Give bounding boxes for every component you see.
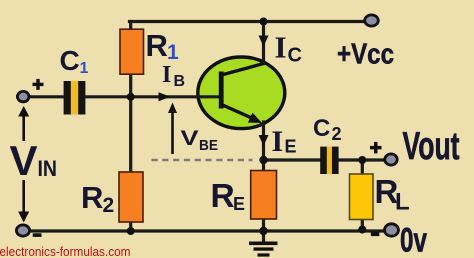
svg-text:R: R	[211, 178, 235, 215]
svg-text:1: 1	[80, 60, 89, 77]
svg-text:0v: 0v	[400, 222, 427, 258]
svg-text:IN: IN	[38, 156, 58, 181]
svg-text:BE: BE	[199, 138, 218, 154]
svg-text:C: C	[288, 45, 302, 67]
svg-text:I: I	[162, 62, 171, 88]
svg-text:C: C	[313, 115, 330, 142]
svg-text:Vout: Vout	[403, 125, 460, 168]
svg-text:C: C	[60, 45, 80, 76]
svg-text:L: L	[395, 189, 410, 216]
svg-text:+Vcc: +Vcc	[337, 39, 394, 71]
svg-text:I: I	[272, 125, 284, 158]
svg-text:2: 2	[332, 124, 342, 144]
svg-text:1: 1	[167, 41, 179, 64]
svg-text:I: I	[275, 30, 287, 65]
svg-text:electronics-formulas.com: electronics-formulas.com	[0, 244, 131, 258]
svg-text:V: V	[181, 126, 200, 150]
svg-text:R: R	[81, 180, 103, 215]
svg-text:E: E	[233, 194, 245, 214]
svg-text:2: 2	[103, 194, 115, 217]
svg-text:E: E	[285, 137, 297, 157]
svg-text:B: B	[174, 73, 186, 90]
svg-text:V: V	[10, 137, 38, 184]
svg-text:R: R	[146, 28, 168, 63]
